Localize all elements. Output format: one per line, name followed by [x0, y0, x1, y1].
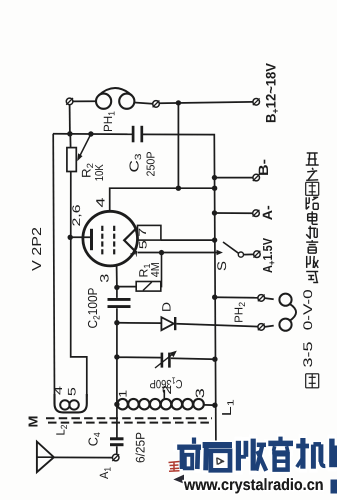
watermark logo (crystalradio)	[177, 443, 201, 451]
triode/pentode tube V (2P2)	[83, 211, 138, 266]
node B+ drop junction top	[176, 100, 181, 105]
covered schematic mark inside shi	[217, 458, 224, 465]
wire B- stub	[215, 177, 253, 179]
svg-text:A1: A1	[97, 467, 113, 479]
svg-text:0-V-0: 0-V-0	[301, 289, 315, 330]
wire left drop from PH1 terminal	[69, 105, 71, 134]
wire pin7 line to bus	[161, 239, 215, 241]
resistor R2 top lead	[69, 134, 71, 148]
svg-text:R2: R2	[80, 163, 96, 178]
svg-text:1: 1	[129, 251, 140, 258]
wire C3 right lead and right bus	[143, 134, 216, 441]
switch S contact circle	[238, 252, 243, 257]
svg-text:7: 7	[137, 228, 149, 237]
svg-text:B-: B-	[256, 159, 271, 176]
headphone PH1	[96, 94, 111, 109]
terminal PH2 lower	[258, 324, 265, 331]
L1 tap 2	[163, 390, 165, 399]
tube filament	[124, 228, 136, 253]
caption 式收音机电路图之五	[306, 272, 318, 283]
terminal PH2 upper	[258, 295, 265, 302]
svg-text:A-: A-	[260, 205, 275, 220]
svg-text:A+1.5V: A+1.5V	[260, 238, 278, 273]
svg-text:2: 2	[160, 384, 174, 394]
inductor L2	[55, 394, 87, 412]
wire A- stub	[215, 212, 253, 214]
node pin7 line at bus	[212, 237, 217, 242]
svg-text:3: 3	[193, 388, 207, 398]
wire outer left rail	[53, 134, 54, 397]
wire antenna to A1 terminal	[54, 456, 112, 458]
wire PH1 left lead	[73, 100, 97, 102]
headphone PH2	[265, 298, 274, 299]
node junction wiper tap	[88, 131, 93, 136]
wire mid rail below C2	[116, 287, 118, 298]
svg-text:250P: 250P	[146, 151, 158, 176]
node filament/R1 junction	[159, 250, 164, 255]
pin box 5 7	[138, 225, 161, 240]
svg-text:M: M	[26, 416, 41, 428]
watermark cursor arrow	[172, 474, 185, 485]
wire filament line pins 1,5 to switch	[138, 252, 220, 254]
svg-text:4: 4	[53, 386, 65, 395]
svg-text:C4: C4	[86, 432, 103, 446]
tube grid dashes column 2	[113, 226, 115, 255]
svg-text:www.crystalradio.cn: www.crystalradio.cn	[183, 476, 323, 494]
svg-text:10K: 10K	[94, 164, 106, 181]
switch S blade	[223, 242, 239, 253]
wire grid top rail	[53, 133, 133, 136]
svg-text:6/25P: 6/25P	[133, 432, 147, 463]
svg-text:PH2: PH2	[234, 302, 248, 323]
node C1 line left junction	[114, 354, 119, 359]
resistor R2 bottom lead down to L2 jog	[71, 172, 87, 397]
ground E (partially covered)	[209, 457, 223, 459]
svg-text:L2: L2	[53, 425, 69, 436]
wire PH2 top line	[215, 296, 258, 299]
capacitor C2	[108, 298, 131, 301]
terminal PH1 left	[66, 98, 73, 105]
svg-text:4: 4	[94, 197, 108, 207]
wire PH1 right lead	[134, 103, 152, 104]
caption figure number 图 3-5	[306, 374, 319, 388]
node pin3/C2/R1 junction	[114, 285, 119, 290]
wire switch to A+ terminal	[244, 253, 254, 255]
svg-text:3-5: 3-5	[301, 341, 315, 367]
terminal B+	[253, 99, 260, 106]
node plate line at bus	[212, 186, 217, 191]
tube plate bar	[90, 229, 93, 250]
resistor R1	[136, 282, 161, 292]
svg-text:5: 5	[66, 387, 78, 396]
resistor R1 left lead	[117, 286, 136, 288]
node C1 line at bus	[212, 357, 217, 362]
tube grid dashes column 1	[101, 226, 103, 255]
wire tube cathode pin 3 lead	[116, 266, 118, 288]
svg-text:L1: L1	[219, 399, 236, 416]
capacitor C4	[110, 437, 124, 440]
terminal A+1.5V	[254, 251, 261, 258]
node plate line junction	[176, 186, 181, 191]
node junction top-left	[67, 131, 72, 136]
terminal A1	[112, 454, 119, 461]
wire L1 right link to bus	[204, 404, 215, 406]
svg-text:PH1: PH1	[101, 111, 117, 132]
watermark corner block	[331, 480, 337, 494]
wire plate line (tube pin 4 to bus)	[110, 188, 215, 211]
wire C1 line left	[117, 356, 161, 358]
C4 bottom lead	[116, 446, 118, 454]
variable capacitor C1	[161, 353, 164, 368]
core M dashed lines	[46, 417, 212, 419]
wire diode line to PH2	[176, 324, 258, 327]
node L1 left junction	[114, 402, 119, 407]
svg-text:S: S	[215, 261, 229, 271]
svg-text:3: 3	[98, 273, 112, 282]
svg-text:4M: 4M	[150, 262, 162, 277]
terminal A-	[253, 210, 260, 217]
wire B+ top rail	[159, 102, 253, 103]
antenna	[37, 442, 54, 473]
wire tube grid lead pins 2,6	[70, 236, 90, 238]
node L1 right at bus	[212, 403, 217, 408]
svg-text:B+12~18V: B+12~18V	[263, 62, 281, 123]
terminal PH1 right	[153, 101, 160, 108]
resistor R1 right lead	[160, 253, 163, 287]
svg-text:5: 5	[137, 240, 149, 249]
node grid lead junction	[68, 235, 73, 240]
svg-text:1: 1	[118, 390, 130, 398]
inductor L1	[117, 399, 128, 410]
svg-text:C3: C3	[127, 154, 144, 173]
node diode line junction	[114, 320, 119, 325]
wire diode line left	[117, 322, 161, 324]
svg-text:V 2P2: V 2P2	[29, 227, 44, 271]
terminal B-	[253, 174, 260, 181]
wire B+ drop to plate line	[177, 103, 179, 188]
diode D	[161, 317, 173, 330]
resistor R2	[67, 148, 76, 172]
C1 arrow	[155, 353, 174, 368]
svg-text:2,6: 2,6	[71, 205, 83, 227]
capacitor C3	[132, 126, 135, 143]
wire C1 line right	[171, 358, 215, 359]
svg-text:C2100P: C2100P	[85, 288, 102, 329]
svg-text:D: D	[159, 302, 173, 312]
watermark red seal	[169, 462, 180, 472]
resistor R2 wiper arrow	[80, 134, 91, 157]
